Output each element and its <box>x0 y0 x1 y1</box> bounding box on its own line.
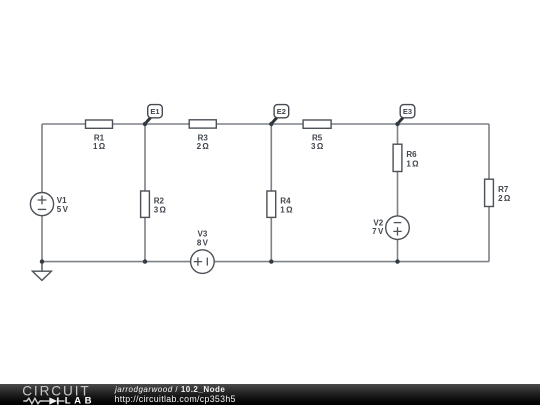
junction dot E3 <box>395 122 399 126</box>
resistor R5 <box>303 120 331 151</box>
footer bar <box>0 384 540 405</box>
svg-text:R4: R4 <box>280 196 291 205</box>
voltage source V1 <box>30 193 68 216</box>
resistor R6 <box>393 144 419 171</box>
svg-text:1 Ω: 1 Ω <box>280 205 293 214</box>
junction dot E2 <box>269 122 273 126</box>
wire node E1 branch <box>144 124 146 262</box>
wire bottom rail <box>42 261 489 263</box>
voltage source V3 <box>191 229 215 273</box>
resistor R1 <box>86 120 113 151</box>
svg-text:1 Ω: 1 Ω <box>406 159 419 168</box>
wire node E2 branch <box>270 124 272 262</box>
svg-text:V3: V3 <box>198 229 208 238</box>
junction dot ground <box>40 259 44 263</box>
CircuitLab logo diode <box>44 400 49 402</box>
resistor R2 <box>141 191 167 217</box>
svg-text:R2: R2 <box>154 196 165 205</box>
node E1 flag <box>144 105 162 125</box>
junction dot E1 <box>143 122 147 126</box>
wire node E3 branch <box>397 124 399 262</box>
svg-text:E3: E3 <box>403 107 412 116</box>
node E2 flag <box>271 105 289 125</box>
resistor R7 <box>485 179 511 206</box>
svg-text:7 V: 7 V <box>372 227 384 236</box>
svg-text:2 Ω: 2 Ω <box>498 194 511 203</box>
svg-text:3 Ω: 3 Ω <box>311 142 324 151</box>
svg-text:E2: E2 <box>277 107 286 116</box>
svg-text:2 Ω: 2 Ω <box>197 142 210 151</box>
svg-text:E1: E1 <box>150 107 159 116</box>
voltage source V2 <box>372 216 409 240</box>
wire top rail <box>42 123 489 125</box>
junction dot bottom V2 <box>395 259 399 263</box>
svg-text:R6: R6 <box>406 150 417 159</box>
svg-text:http://circuitlab.com/cp353h5: http://circuitlab.com/cp353h5 <box>115 394 236 404</box>
svg-text:V1: V1 <box>57 196 67 205</box>
svg-text:1 Ω: 1 Ω <box>93 142 106 151</box>
svg-text:jarrodgarwood / 10.2_Node: jarrodgarwood / 10.2_Node <box>114 385 225 394</box>
resistor R3 <box>189 120 216 151</box>
svg-text:5 V: 5 V <box>57 205 69 214</box>
junction dot bottom R2 <box>143 259 147 263</box>
svg-text:8 V: 8 V <box>197 239 209 248</box>
wire left branch <box>41 124 43 262</box>
svg-text:LAB: LAB <box>65 395 95 405</box>
svg-text:R7: R7 <box>498 185 509 194</box>
wire right branch <box>488 124 490 262</box>
ground <box>32 262 51 281</box>
junction dot bottom R4 <box>269 259 273 263</box>
node E3 flag <box>397 105 415 125</box>
resistor R4 <box>267 191 293 217</box>
svg-text:3 Ω: 3 Ω <box>154 205 167 214</box>
CircuitLab logo resistor zigzag <box>23 398 44 403</box>
